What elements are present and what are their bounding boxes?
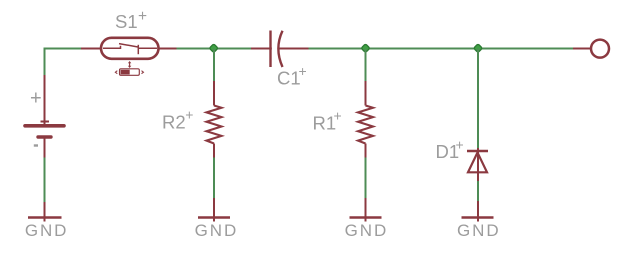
wire: switch right lead (red) <box>158 48 177 50</box>
diode D1 triangle <box>468 153 487 173</box>
ground: R1 GND bar <box>350 216 382 219</box>
ground: D1 GND bar <box>462 216 494 219</box>
wire: R2 to ground (red) <box>213 198 215 222</box>
capacitor C1 curved plate <box>278 31 282 67</box>
svg-text:C1: C1 <box>277 68 301 89</box>
ground: R2 GND bar <box>198 216 230 219</box>
wire: D1 to ground (red) <box>477 201 479 222</box>
wire: R1 bottom vertical (green) <box>365 158 367 199</box>
switch S1 toggle icon body <box>120 69 140 76</box>
wire: R1 top vertical (green) <box>365 49 367 82</box>
svg-text:+: + <box>30 87 42 109</box>
switch S1 left contact <box>103 46 121 48</box>
battery V1 polarity label minus <box>34 144 38 146</box>
wire: battery bottom vertical (green) <box>44 158 46 203</box>
wire: R2 top vertical (green) <box>213 49 215 82</box>
svg-text:+: + <box>138 8 147 25</box>
svg-text:GND: GND <box>25 221 68 240</box>
wire: battery to ground (red) <box>44 202 46 222</box>
wire: capacitor right lead (red) <box>280 48 309 50</box>
svg-text:+: + <box>456 137 464 153</box>
svg-text:S1: S1 <box>115 11 138 32</box>
wire: D1 bottom vertical (green) <box>477 181 479 201</box>
wire: R2 bottom lead (red) <box>213 144 215 158</box>
node B junction dot <box>361 44 370 53</box>
wire: switch left lead (red) <box>81 48 101 50</box>
node C junction dot <box>474 44 483 53</box>
wire: top horizontal green 2 <box>177 48 252 50</box>
ground: battery GND bar <box>28 216 62 219</box>
switch S1 contact post <box>137 45 139 54</box>
svg-text:GND: GND <box>195 221 238 240</box>
switch S1 toggle icon left arrow <box>115 71 117 74</box>
svg-text:+: + <box>185 107 193 123</box>
wire: R1 top lead (red) <box>365 81 367 106</box>
wire: D1 through lead (red) <box>477 148 479 181</box>
wire: R1 bottom lead (red) <box>365 144 367 158</box>
wire: R2 top lead (red) <box>213 81 215 106</box>
wire: R1 to ground (red) <box>365 198 367 222</box>
svg-text:GND: GND <box>345 221 388 240</box>
switch S1 right contact <box>138 47 157 49</box>
battery V1 plus tick <box>41 121 50 123</box>
terminal pad J1 <box>591 40 609 58</box>
svg-text:+: + <box>299 63 307 79</box>
wire: battery top vertical (green) <box>44 48 46 75</box>
switch S1 toggle icon right arrow <box>142 71 144 74</box>
svg-text:GND: GND <box>457 221 500 240</box>
svg-text:+: + <box>334 108 342 124</box>
switch S1 toggle icon filled half <box>121 70 130 75</box>
svg-text:R2: R2 <box>162 112 186 133</box>
resistor R1 zigzag <box>358 106 373 144</box>
wire: battery bottom lead (red) <box>44 139 46 158</box>
diode D1 cathode bar <box>467 150 488 153</box>
wire: battery top lead (red) <box>44 75 46 125</box>
switch S1 oval body <box>101 38 159 59</box>
wire: capacitor left lead (red) <box>251 48 272 50</box>
wire: top horizontal green 1 <box>44 48 82 50</box>
node A junction dot <box>209 44 218 53</box>
wire: terminal lead (red) <box>573 48 591 50</box>
battery V1 short plate <box>38 135 51 138</box>
switch S1 lever <box>119 44 138 47</box>
capacitor C1 left plate <box>269 31 271 68</box>
switch S1 updown arrow <box>128 61 131 68</box>
wire: D1 top vertical (green) <box>477 49 479 149</box>
wire: R2 bottom vertical (green) <box>213 158 215 199</box>
wire: top horizontal green 3 <box>309 48 574 50</box>
battery V1 long plate <box>25 124 64 128</box>
resistor R2 zigzag <box>207 106 222 144</box>
